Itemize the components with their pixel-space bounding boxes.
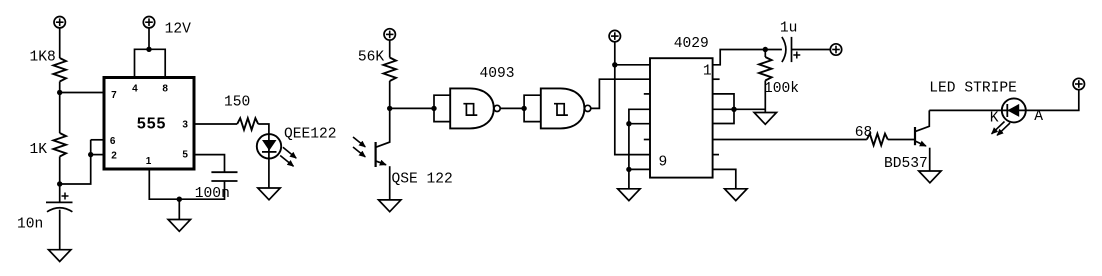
resistor 68 [867, 134, 888, 146]
junction ground node 555 [177, 197, 182, 202]
resistor 1K8 [53, 58, 66, 82]
capacitor C 1u [782, 37, 792, 62]
supply V+ top-left [54, 17, 65, 28]
wire 100k to ground node [764, 81, 766, 113]
QSE122 light arrows [353, 137, 365, 157]
wire U loop row 4 stub [713, 108, 734, 110]
wire 555 pin 5 to 100n [194, 155, 225, 173]
svg-text:3: 3 [182, 120, 188, 131]
stub left row 6 [644, 139, 650, 141]
junction 100k top [763, 47, 768, 52]
ground under jam line [618, 189, 640, 201]
wire jam row 8 stub [629, 168, 650, 170]
LED QEE122 [257, 134, 281, 158]
wire 4029 out to resistor 68 [713, 139, 867, 141]
wire 100n down [149, 169, 224, 199]
wire pin 6 stub [91, 139, 104, 141]
ground under 10n [49, 250, 71, 262]
svg-text:7: 7 [111, 90, 117, 101]
wire node B to pins 2/6 riser [60, 140, 91, 184]
wire U loop to 100k ground node [734, 108, 765, 110]
stub left row 3 [644, 93, 650, 95]
svg-text:1: 1 [703, 64, 712, 80]
resistor 150 [237, 118, 258, 130]
wire node B to capacitor C 10n [59, 184, 61, 202]
gate U2A input bracket [434, 95, 450, 121]
junction supply to pin row 1 [612, 62, 617, 67]
svg-text:1K: 1K [30, 142, 48, 158]
svg-text:LED STRIPE: LED STRIPE [929, 81, 1017, 97]
junction gate 2 input [521, 106, 526, 111]
ground under BD537 [919, 171, 941, 183]
svg-text:4093: 4093 [480, 66, 515, 82]
svg-text:4: 4 [132, 84, 138, 95]
resistor 1K [53, 133, 66, 157]
transistor Q1 BD537 [915, 110, 930, 171]
U2A schmitt symbol [463, 104, 477, 115]
wire node C to gate 1 input [390, 107, 434, 109]
wire 56K to node C [389, 81, 391, 108]
svg-text:2: 2 [111, 151, 117, 162]
ground under QSE122 [379, 200, 401, 212]
LED stripe light arrows [992, 122, 1010, 136]
svg-text:56K: 56K [358, 49, 385, 65]
svg-text:BD537: BD537 [884, 156, 928, 172]
svg-text:1K8: 1K8 [30, 50, 56, 66]
wire node A to 555 pin 7 [60, 92, 104, 94]
capacitor C 10n plus sign [62, 193, 69, 200]
svg-text:1u: 1u [780, 20, 798, 36]
wire 1u to supply [792, 49, 831, 51]
ground under QEE122 [258, 188, 280, 200]
wire gate 2 output to 4029 clock [591, 79, 650, 108]
wire 150 to LED [258, 124, 269, 134]
wire 4029 jam line [629, 109, 650, 189]
node A junction [57, 90, 62, 95]
svg-text:12V: 12V [165, 21, 192, 37]
op-amp U1 555 body [104, 78, 194, 170]
wire node A to R 1K [59, 93, 61, 134]
junction pin 2 riser [88, 152, 93, 157]
svg-text:4029: 4029 [674, 36, 709, 52]
wire supply to 4029 top-left pin [615, 64, 650, 66]
wire to 100k [764, 50, 766, 58]
wire 4029 pin1 to top rail [713, 50, 782, 65]
capacitor C 100n [211, 172, 237, 181]
capacitor C 10n [46, 202, 73, 211]
LED stripe symbol [1002, 98, 1026, 122]
junction U loop [731, 107, 736, 112]
wire 1K to node B [59, 157, 61, 185]
U2B schmitt symbol [554, 104, 568, 115]
svg-text:9: 9 [659, 155, 668, 171]
wire 1K8 to node A [59, 82, 61, 93]
ground right of 4029 [725, 189, 747, 201]
stub right row 7 [713, 154, 719, 156]
wire LED to ground [268, 159, 270, 189]
wire rail pins 4 8 [135, 49, 166, 77]
supply V+ right of 1u [830, 44, 841, 55]
svg-text:K: K [990, 110, 999, 126]
junction jam row 8 [626, 167, 631, 172]
wire to ground 555 [178, 199, 180, 219]
transistor QSE122 [376, 142, 390, 200]
wire 555 pin 3 [194, 123, 237, 125]
wire jam row 5 stub [629, 123, 650, 125]
wire pin 2 stub [91, 154, 104, 156]
wire supply rail left of 4029 [615, 42, 650, 155]
svg-text:8: 8 [162, 84, 168, 95]
node C junction [387, 106, 392, 111]
resistor 56K [383, 58, 396, 82]
svg-text:555: 555 [137, 115, 166, 132]
supply V+ far right [1073, 78, 1084, 89]
counter U3 4029 body [650, 58, 713, 177]
svg-text:QSE 122: QSE 122 [392, 171, 453, 187]
U2A output bubble [494, 105, 500, 111]
svg-text:QEE122: QEE122 [284, 126, 337, 142]
wire 4029 right U loop [713, 94, 734, 124]
wire 4029 row 8 to ground [713, 169, 736, 188]
supply V+ 4029 [609, 30, 620, 41]
node B junction [57, 181, 62, 186]
capacitor 1u plus sign [793, 52, 800, 59]
svg-text:5: 5 [182, 149, 188, 160]
svg-text:6: 6 [110, 136, 116, 147]
wire gate 1 to gate 2 [500, 107, 524, 109]
junction 12V rail [146, 47, 151, 52]
LED QEE122 light arrows [280, 147, 296, 166]
supply V+ 56K [384, 29, 395, 40]
ground under 100k [754, 113, 776, 125]
svg-text:150: 150 [224, 94, 250, 110]
svg-text:10n: 10n [17, 217, 43, 233]
wire 12V supply drop [148, 28, 150, 49]
wire supply to R 1K8 [59, 28, 61, 58]
junction jam row 5 [626, 121, 631, 126]
ground under 555 [168, 220, 190, 232]
wire node C to QSE122 collector [376, 108, 390, 147]
resistor 100k [759, 57, 772, 81]
wire LED to supply [1026, 90, 1079, 111]
svg-text:1: 1 [146, 156, 152, 167]
wire 10n to ground [59, 210, 61, 250]
nand gate U2A [450, 88, 494, 128]
wire supply to 56K [389, 40, 391, 57]
U2B output bubble [585, 105, 591, 111]
supply V+ 12V [143, 17, 154, 28]
nand gate U2B [541, 88, 585, 128]
svg-text:A: A [1034, 109, 1043, 125]
wire 68 to base [888, 139, 915, 141]
gate U2B input bracket [524, 95, 541, 121]
stub right row 2 [713, 78, 720, 80]
svg-text:100k: 100k [764, 81, 799, 97]
junction gate 1 input [431, 106, 436, 111]
wire collector to LED stripe [929, 109, 1002, 111]
